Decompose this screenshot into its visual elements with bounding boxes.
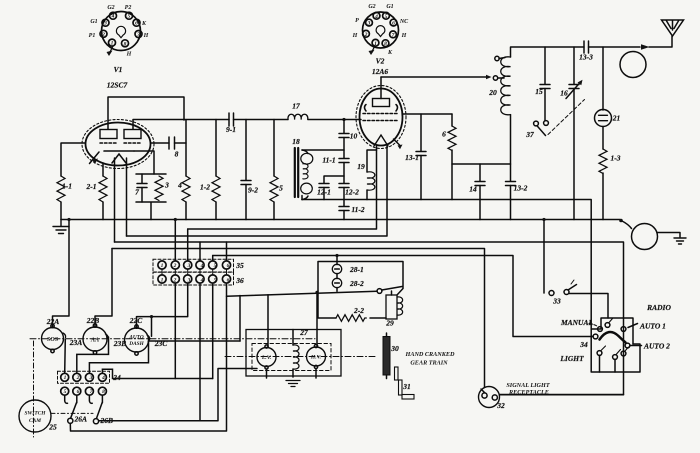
svg-text:NC: NC (399, 19, 409, 25)
svg-text:2: 2 (364, 32, 368, 38)
svg-text:22B: 22B (86, 316, 100, 325)
svg-text:P1: P1 (89, 33, 96, 39)
svg-text:L.V.: L.V. (261, 355, 272, 361)
svg-text:9-1: 9-1 (226, 125, 236, 134)
svg-text:MANUAL: MANUAL (560, 318, 594, 327)
svg-text:4: 4 (200, 278, 204, 284)
svg-text:H.V.: H.V. (310, 355, 322, 361)
svg-text:28-2: 28-2 (349, 279, 364, 288)
svg-text:28-1: 28-1 (349, 265, 364, 274)
svg-text:2: 2 (101, 32, 105, 38)
svg-text:RECEPTACLE: RECEPTACLE (508, 389, 549, 396)
svg-text:G1: G1 (386, 4, 393, 10)
svg-text:2: 2 (173, 278, 177, 284)
svg-text:DASH: DASH (128, 341, 144, 347)
svg-text:23A: 23A (69, 338, 83, 347)
svg-text:26A: 26A (74, 415, 88, 424)
svg-text:21: 21 (612, 114, 621, 123)
svg-text:8: 8 (102, 389, 105, 395)
svg-text:13-3: 13-3 (579, 53, 593, 62)
svg-text:10: 10 (350, 132, 358, 141)
svg-text:SIGNAL LIGHT: SIGNAL LIGHT (506, 382, 549, 389)
svg-text:23C: 23C (154, 339, 169, 348)
svg-text:22A: 22A (46, 317, 60, 326)
svg-text:25: 25 (48, 423, 57, 432)
svg-text:15: 15 (535, 87, 543, 96)
svg-text:SOS: SOS (47, 336, 59, 343)
svg-text:3: 3 (164, 181, 169, 190)
svg-text:1: 1 (374, 41, 377, 47)
svg-text:9-2: 9-2 (248, 186, 258, 195)
svg-text:V2: V2 (376, 57, 385, 66)
svg-text:13-2: 13-2 (514, 184, 528, 193)
svg-text:AUTO: AUTO (128, 335, 143, 341)
svg-text:HAND CRANKED: HAND CRANKED (405, 351, 456, 358)
svg-text:8: 8 (124, 41, 127, 47)
svg-text:H: H (401, 33, 407, 39)
svg-text:5: 5 (64, 389, 67, 395)
svg-text:12-1: 12-1 (317, 188, 331, 197)
svg-text:32: 32 (496, 401, 505, 410)
svg-text:3: 3 (89, 375, 93, 381)
svg-text:H: H (352, 33, 358, 39)
svg-text:H: H (126, 52, 132, 58)
svg-text:1: 1 (111, 41, 114, 47)
svg-text:SWITCH: SWITCH (25, 411, 47, 417)
svg-text:1: 1 (64, 375, 67, 381)
svg-text:4: 4 (177, 181, 182, 190)
svg-text:4: 4 (374, 14, 378, 20)
svg-text:GEAR TRAIN: GEAR TRAIN (410, 360, 448, 367)
svg-text:2-1: 2-1 (86, 182, 97, 191)
svg-text:5: 5 (214, 278, 217, 284)
svg-text:4: 4 (111, 14, 115, 20)
svg-text:2-2: 2-2 (353, 306, 364, 315)
svg-text:1-3: 1-3 (611, 154, 621, 163)
svg-text:22C: 22C (129, 316, 144, 325)
svg-text:1-2: 1-2 (200, 183, 210, 192)
svg-text:27: 27 (299, 328, 308, 337)
svg-text:34: 34 (579, 340, 588, 349)
svg-text:7: 7 (137, 32, 140, 38)
svg-text:V1: V1 (114, 65, 123, 74)
svg-text:RADIO: RADIO (646, 303, 671, 312)
svg-text:P: P (355, 18, 359, 24)
svg-text:33: 33 (552, 297, 561, 306)
svg-text:G2: G2 (107, 5, 114, 11)
svg-text:7: 7 (90, 389, 93, 395)
svg-text:6: 6 (227, 263, 230, 269)
svg-text:6: 6 (227, 278, 230, 284)
svg-text:7: 7 (392, 32, 395, 38)
svg-text:3: 3 (103, 21, 107, 27)
svg-text:1: 1 (161, 263, 164, 269)
svg-text:5: 5 (385, 14, 388, 20)
svg-text:30: 30 (390, 344, 399, 353)
svg-text:5: 5 (279, 184, 283, 193)
svg-text:20: 20 (488, 88, 497, 97)
svg-text:24: 24 (112, 373, 121, 382)
svg-text:36: 36 (235, 276, 244, 285)
svg-text:6: 6 (77, 389, 80, 395)
svg-text:LIGHT: LIGHT (559, 354, 584, 363)
svg-text:6: 6 (392, 21, 395, 27)
svg-text:5: 5 (214, 263, 217, 269)
svg-text:31: 31 (402, 382, 411, 391)
svg-text:6: 6 (135, 21, 138, 27)
svg-text:11-2: 11-2 (351, 205, 365, 214)
svg-text:5: 5 (128, 14, 131, 20)
svg-text:8: 8 (384, 41, 387, 47)
svg-text:4: 4 (200, 263, 204, 269)
svg-text:18: 18 (292, 137, 300, 146)
svg-text:AUTO 2: AUTO 2 (643, 342, 670, 351)
svg-text:29: 29 (385, 319, 394, 328)
svg-text:AUTO 1: AUTO 1 (639, 322, 666, 331)
svg-text:3: 3 (367, 21, 371, 27)
svg-text:4: 4 (101, 375, 105, 381)
svg-text:16: 16 (560, 89, 568, 98)
svg-text:1: 1 (161, 278, 164, 284)
svg-text:23B: 23B (113, 339, 127, 348)
svg-text:7: 7 (135, 188, 139, 197)
svg-text:12SC7: 12SC7 (107, 81, 128, 90)
svg-text:2: 2 (76, 375, 80, 381)
svg-text:11-1: 11-1 (322, 156, 335, 165)
svg-text:2: 2 (173, 263, 177, 269)
svg-text:12-2: 12-2 (345, 188, 359, 197)
svg-text:8: 8 (175, 150, 179, 159)
svg-text:37: 37 (525, 130, 534, 139)
svg-text:CAM: CAM (29, 418, 41, 424)
svg-text:19: 19 (357, 162, 365, 171)
svg-text:17: 17 (292, 102, 300, 111)
svg-text:AA: AA (90, 337, 99, 344)
svg-text:G1: G1 (90, 19, 97, 25)
svg-text:3: 3 (187, 278, 191, 284)
svg-text:35: 35 (235, 261, 244, 270)
svg-text:G2: G2 (368, 4, 375, 10)
svg-text:13-1: 13-1 (405, 153, 419, 162)
svg-text:6: 6 (442, 130, 446, 139)
svg-text:12A6: 12A6 (372, 67, 389, 76)
svg-text:3: 3 (187, 263, 191, 269)
svg-text:14: 14 (469, 185, 477, 194)
svg-text:26B: 26B (100, 416, 114, 425)
svg-text:P2: P2 (125, 5, 132, 11)
svg-text:H: H (143, 33, 149, 39)
svg-text:1-1: 1-1 (62, 182, 72, 191)
